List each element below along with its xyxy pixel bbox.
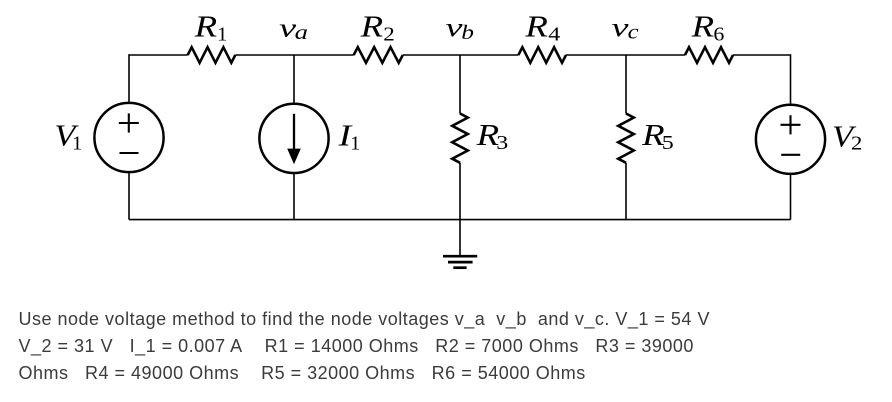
svg-text:b: b [461, 22, 474, 44]
svg-text:R: R [360, 9, 384, 44]
voltage source V2 circle [756, 105, 825, 174]
current source I1 circle [259, 104, 328, 173]
resistor R5 [618, 114, 634, 163]
label V1 [54, 118, 82, 155]
V2 plus sign [781, 115, 801, 134]
label I1 [337, 117, 360, 154]
svg-text:R: R [194, 9, 218, 44]
resistor R4 [518, 47, 566, 63]
label R4 [524, 9, 560, 46]
wire ground stub [459, 220, 461, 256]
resistor R2 [354, 47, 403, 63]
wire node a branch above I1 [293, 55, 295, 105]
resistor R3 [452, 114, 468, 163]
label R1 [194, 9, 228, 46]
svg-text:R: R [690, 9, 714, 44]
label V2 [832, 118, 862, 154]
svg-text:2: 2 [851, 132, 863, 154]
svg-text:v: v [612, 12, 629, 42]
svg-text:3: 3 [496, 132, 508, 154]
wire top rail segment R1 to R2 through node a [235, 54, 353, 56]
wire node b branch below R3 [459, 163, 461, 220]
wire node c branch below R5 [625, 163, 627, 220]
wire left branch above V1 [128, 54, 130, 103]
wire node a branch below I1 [293, 173, 295, 220]
I1 arrow head [287, 149, 301, 165]
resistor R6 [685, 47, 733, 63]
wire right branch below V2 [790, 173, 792, 219]
svg-text:c: c [628, 21, 639, 43]
label node a (v_a) [279, 12, 308, 44]
wire top rail segment R2 to R4 through node b [403, 54, 519, 56]
svg-text:R: R [524, 9, 548, 44]
svg-text:4: 4 [548, 23, 560, 45]
svg-text:1: 1 [217, 24, 227, 46]
wire bottom rail [129, 219, 791, 221]
I1 arrow shaft [293, 114, 295, 152]
label R2 [360, 9, 395, 46]
resistor R1 [188, 47, 236, 63]
wire node b branch above R3 [459, 55, 461, 114]
voltage source V1 circle [94, 103, 163, 172]
svg-text:5: 5 [662, 132, 674, 154]
ground [443, 256, 477, 268]
label node b (v_b) [446, 12, 475, 44]
label node c (v_c) [612, 12, 639, 43]
svg-text:a: a [295, 22, 308, 44]
svg-text:6: 6 [713, 23, 724, 45]
svg-text:1: 1 [72, 133, 82, 155]
svg-text:1: 1 [350, 133, 360, 155]
V2 minus sign [781, 154, 800, 156]
wire top rail segment R4 to R6 through node c [566, 54, 685, 56]
wire top rail segment R6 to V2 [733, 54, 791, 56]
V1 minus sign [120, 152, 139, 154]
svg-text:v: v [446, 12, 463, 42]
wire top rail segment V1 to R1 [129, 54, 188, 56]
wire right branch above V2 [790, 54, 792, 105]
V1 plus sign [119, 113, 139, 132]
problem statement text [19, 306, 710, 388]
label R5 [641, 117, 674, 154]
wire left branch below V1 [128, 172, 130, 220]
svg-text:2: 2 [383, 23, 395, 45]
wire node c branch above R5 [625, 55, 627, 114]
label R3 [476, 117, 509, 154]
label R6 [690, 9, 724, 46]
